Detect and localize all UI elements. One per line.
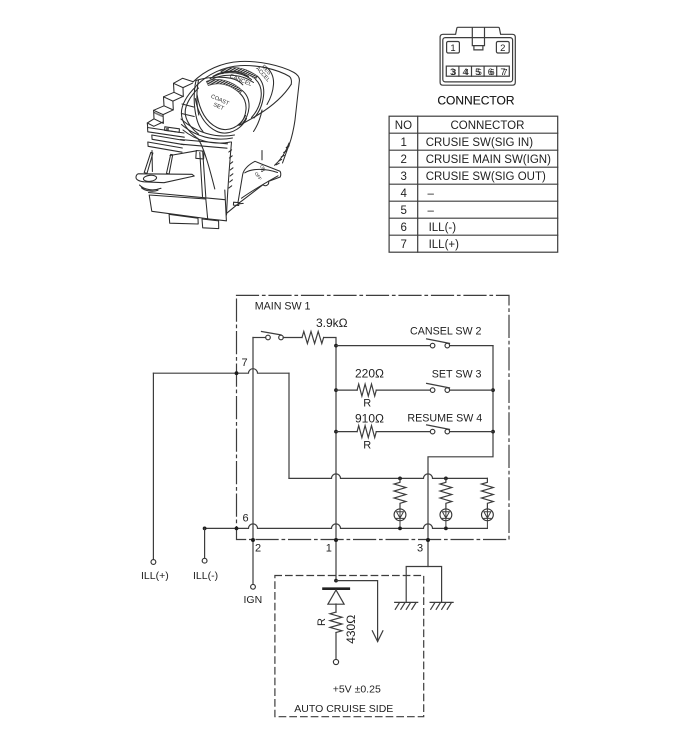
IGN terminal (251, 584, 256, 589)
coast set button inner line (196, 77, 243, 85)
svg-text:R: R (363, 397, 371, 409)
resistor 430 ohm vertical (330, 612, 342, 632)
svg-text:RESUME SW 4: RESUME SW 4 (407, 412, 482, 424)
switch body: left staircase silhouette (147, 78, 192, 127)
diode cathode bar (322, 587, 350, 590)
svg-text:ILL(-): ILL(-) (193, 570, 218, 582)
LED C (482, 509, 494, 529)
CONNECTOR_DRAWING (437, 27, 515, 107)
svg-text:7: 7 (401, 239, 407, 251)
svg-text:6: 6 (490, 67, 495, 77)
svg-text:ILL(+): ILL(+) (429, 239, 460, 251)
connector outer housing (440, 27, 515, 85)
svg-text:220Ω: 220Ω (355, 366, 384, 380)
svg-text:2: 2 (255, 543, 261, 555)
wire: resistor to node column x=336 (pin 1 line) (324, 338, 336, 581)
svg-text:AUTO CRUISE SIDE: AUTO CRUISE SIDE (294, 703, 393, 715)
ground symbol left (395, 602, 418, 609)
LED branch B resistor (440, 478, 452, 509)
LED A (394, 509, 406, 529)
ground symbol right (430, 602, 453, 609)
switch body: inner cap line (197, 66, 292, 86)
svg-text:CONNECTOR: CONNECTOR (437, 94, 514, 108)
wire: LED top rail y=478.4 with hops over x=336 and x=428 (289, 474, 487, 479)
switch body: left plates band (148, 128, 185, 172)
node dot diode top (334, 579, 338, 583)
bracket underside (140, 185, 162, 191)
wire: IGN vertical x=253 (pin 2 line) (252, 338, 254, 585)
wire: diode to resistor (335, 604, 337, 612)
svg-text:NO: NO (395, 120, 412, 132)
mid body plate under band (155, 113, 163, 116)
body mid horizontal edges (225, 190, 227, 221)
svg-text:1: 1 (401, 137, 407, 149)
svg-text:CRUSIE SW(SIG IN): CRUSIE SW(SIG IN) (426, 137, 534, 149)
prong left (144, 152, 153, 173)
connector inner wall (443, 38, 513, 82)
table row lines (389, 133, 558, 235)
svg-text:+5V ±0.25: +5V ±0.25 (333, 684, 381, 696)
svg-text:6: 6 (243, 513, 249, 525)
node dots pin 6 line (203, 527, 207, 531)
main switch SW1 contacts (266, 335, 271, 340)
node dot pin7 at box edge (235, 371, 239, 375)
lever shaft right edge (227, 142, 232, 215)
shell right lower edge (275, 143, 289, 165)
svg-text:5: 5 (401, 205, 407, 217)
svg-text:3: 3 (401, 171, 407, 183)
LED branch A resistor (394, 478, 406, 509)
wire: switch to resistor (283, 337, 302, 339)
switch unit boundary box (dash-dot) (237, 295, 510, 539)
creases below coast button (195, 95, 246, 134)
+5V terminal (333, 659, 338, 664)
set switch SW3 lever (427, 383, 450, 388)
resistor 220 ohm (357, 384, 376, 396)
mid body front face lines (229, 150, 233, 188)
table frame (389, 116, 558, 252)
diode triangle (328, 590, 344, 604)
svg-text:2: 2 (500, 43, 505, 54)
lever shaft left edge (181, 87, 214, 190)
svg-text:1: 1 (450, 43, 455, 54)
wire: 220 resistor to set switch (376, 389, 493, 391)
shell edge surface ticks (276, 146, 289, 165)
auto cruise side box (dashed) (275, 576, 424, 717)
lower body left edge (149, 193, 227, 221)
svg-text:ILL(+): ILL(+) (141, 570, 169, 582)
cancel switch SW2 contacts (430, 343, 435, 348)
svg-text:910Ω: 910Ω (355, 412, 384, 426)
svg-text:R: R (363, 439, 371, 451)
wire: ILL(+) lead x=153.4 (152, 373, 154, 559)
svg-text:CANSEL SW 2: CANSEL SW 2 (410, 325, 482, 337)
svg-text:5: 5 (477, 67, 482, 77)
connector cavity 1 (447, 42, 460, 54)
wire: CANSEL branch y=345.6 (336, 345, 493, 347)
pin dots on bottom edge (251, 538, 255, 542)
svg-text:6: 6 (401, 222, 407, 234)
bracket arm (136, 174, 194, 183)
wire: pin 7 line y=373.2 with hop over x=253 (153, 369, 289, 374)
CONNECTOR_TABLE (389, 116, 558, 252)
resistor 910 ohm (357, 426, 376, 438)
svg-text:430Ω: 430Ω (344, 615, 358, 644)
cancel switch SW2 lever (427, 339, 450, 344)
table column divider (417, 116, 419, 252)
resistor 3.9k ohm (302, 332, 324, 344)
main switch SW1 lever (262, 332, 282, 335)
right fin outline (238, 161, 281, 203)
hatched grip band middle (206, 79, 242, 93)
resume switch SW4 lever (427, 425, 450, 430)
button deck stacked plates (181, 119, 235, 148)
wire: SET branch y=390.1 (336, 389, 357, 391)
svg-text:3: 3 (452, 67, 457, 77)
node dots on pin1 column (334, 344, 338, 348)
svg-text:IGN: IGN (244, 594, 263, 606)
svg-text:4: 4 (401, 188, 408, 200)
wire: vertical x=289 (288, 373, 290, 478)
svg-text:–: – (428, 205, 435, 217)
svg-text:CRUSIE MAIN SW(IGN): CRUSIE MAIN SW(IGN) (426, 154, 551, 166)
ILL(+) terminal (151, 560, 156, 565)
wire: RESUME branch y=431.6 (336, 431, 357, 433)
svg-text:1: 1 (326, 543, 332, 555)
connector bottom cavity row (446, 66, 509, 76)
wire: 910 resistor to resume switch (376, 431, 493, 433)
wire: ILL(-) lead x=204.6 (204, 528, 206, 558)
wire: resistor to +5V terminal (335, 633, 337, 660)
LED B (440, 509, 452, 529)
svg-text:R: R (316, 618, 328, 626)
bracket hole (143, 175, 157, 182)
connector cavity 2 (496, 42, 509, 54)
wire: right bus x=493 (428, 346, 493, 567)
ILL(-) terminal (202, 558, 207, 563)
switch body: outer cap top curve (193, 61, 299, 163)
set switch SW3 contacts (430, 388, 435, 393)
LED branch C resistor (482, 478, 494, 509)
wire: main switch feed (253, 337, 266, 339)
rocker right edge arcs (239, 76, 264, 125)
svg-text:7: 7 (503, 67, 508, 77)
hatched grip band top (221, 68, 258, 80)
svg-text:3.9kΩ: 3.9kΩ (316, 316, 348, 330)
connector center latch (472, 28, 484, 50)
lower body verticals (170, 151, 206, 197)
node dots right bus (491, 388, 495, 392)
lower body feet (169, 214, 219, 228)
svg-text:SET SW 3: SET SW 3 (432, 368, 482, 380)
coast set button outline (194, 80, 203, 132)
cancel button arcs (208, 71, 254, 82)
svg-text:3: 3 (417, 543, 423, 555)
right shell inner curves (240, 67, 291, 132)
svg-text:4: 4 (464, 67, 469, 77)
prong right (167, 154, 173, 174)
svg-text:ILL(-): ILL(-) (429, 222, 457, 234)
svg-text:CONNECTOR: CONNECTOR (451, 120, 525, 132)
right fin inner lines (226, 151, 278, 214)
svg-text:2: 2 (401, 154, 407, 166)
resume switch SW4 contacts (430, 429, 435, 434)
svg-text:–: – (428, 188, 435, 200)
svg-text:7: 7 (242, 357, 248, 369)
upper mid shelf (196, 151, 243, 206)
svg-text:CRUSIE SW(SIG OUT): CRUSIE SW(SIG OUT) (426, 171, 546, 183)
switch body: staircase inner steps (147, 83, 192, 126)
arrow head (open V) (372, 631, 383, 642)
wire: pin 6 line y=528.4 with hops over x=253, x=336, x=428 (205, 524, 488, 529)
ground bridge from pin 3 (406, 567, 441, 603)
node dots LED top rail (398, 477, 402, 481)
svg-text:MAIN SW 1: MAIN SW 1 (255, 301, 311, 313)
wire: branch to arrow (336, 581, 378, 642)
switch body: small latch rect on left band (165, 127, 180, 133)
